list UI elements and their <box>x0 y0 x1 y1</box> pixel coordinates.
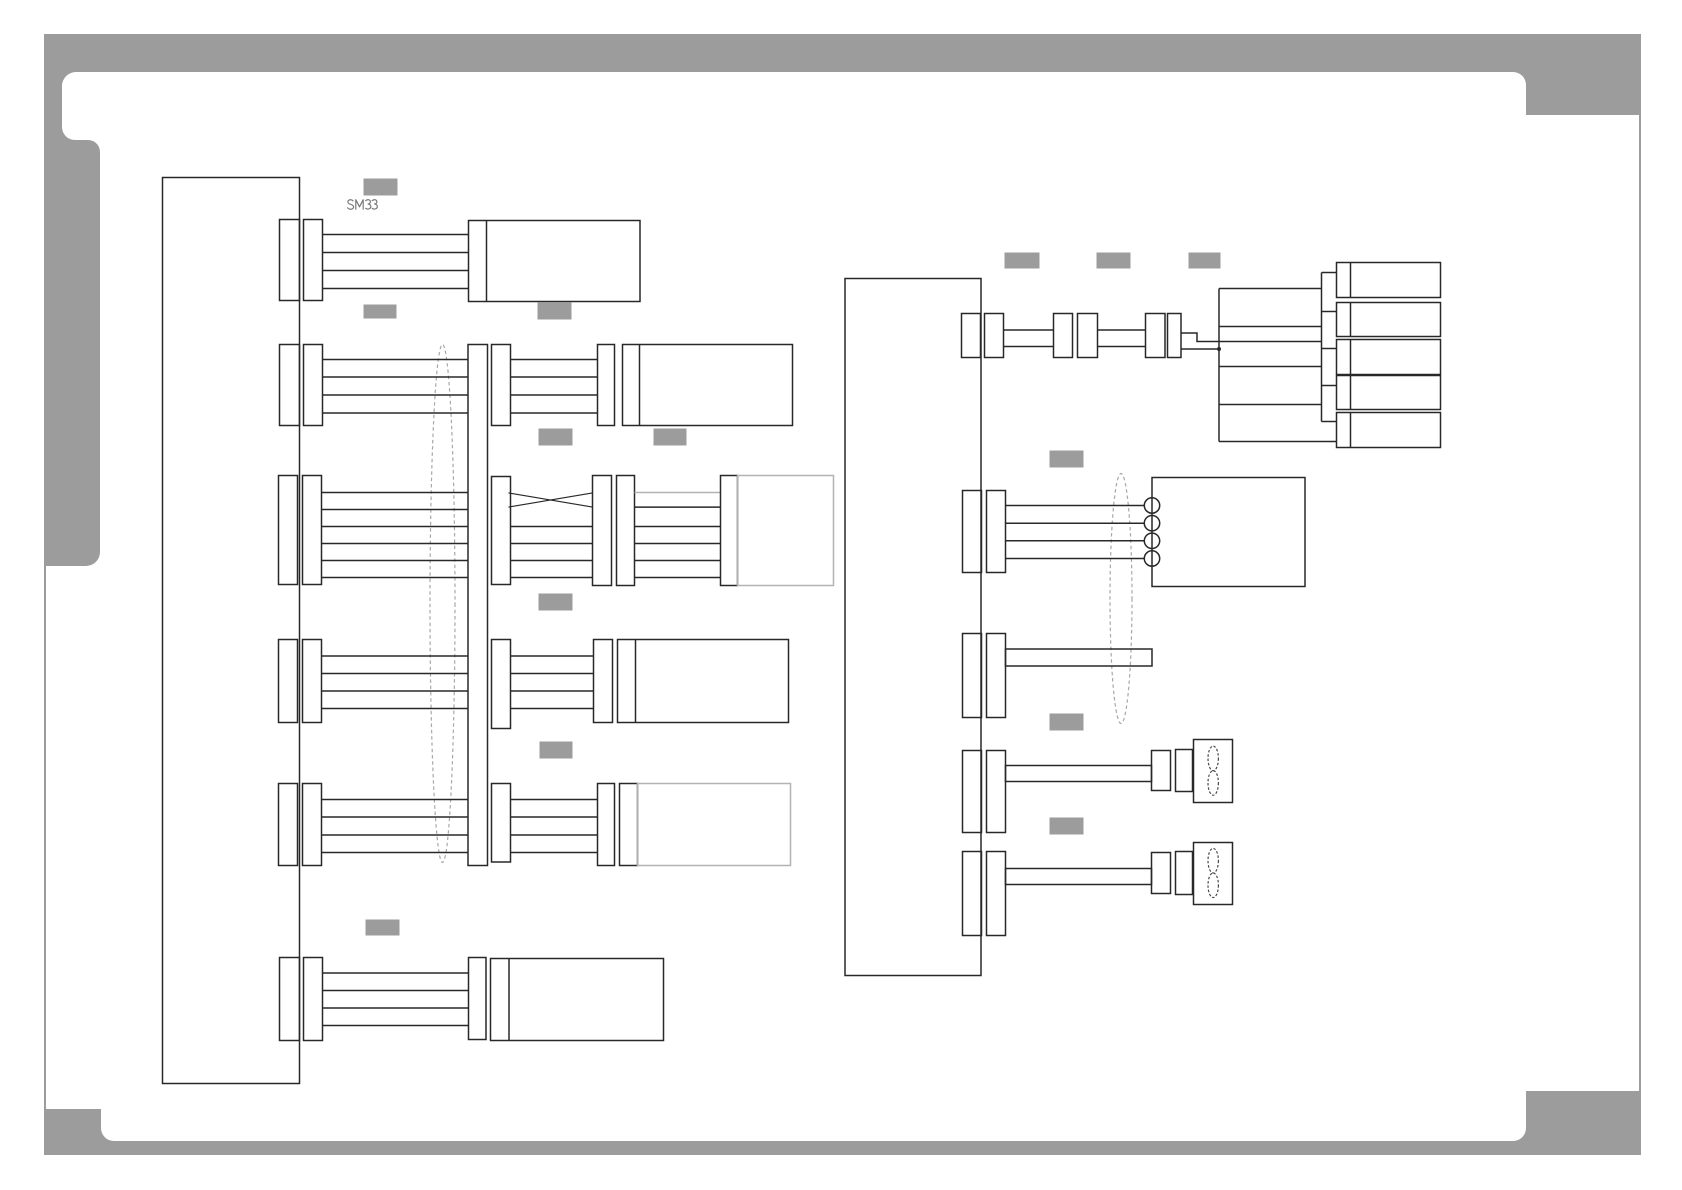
connector row B4 b <box>1176 750 1193 792</box>
wires row2 right <box>511 359 598 361</box>
connector CN21a (board side) <box>963 634 982 718</box>
wires row1 <box>323 234 469 236</box>
label row2 wires <box>539 429 573 446</box>
wires row3 (to bus) <box>322 492 469 494</box>
label row3 <box>539 594 573 611</box>
rung y326 <box>1219 326 1322 328</box>
rung y288 <box>1219 288 1322 290</box>
label row6 <box>366 920 400 936</box>
connector strip row3 box <box>721 476 738 586</box>
connector row2 right <box>598 345 615 426</box>
module box row B2 <box>1152 478 1305 587</box>
wires row3 right <box>511 526 593 528</box>
label row B3 <box>1050 714 1084 731</box>
wires row5 right <box>511 799 598 801</box>
wires row6 <box>323 972 469 974</box>
rung y404 <box>1219 404 1322 406</box>
connector CN6b (row6) <box>304 958 323 1041</box>
module box row1 with connector strip <box>469 221 641 302</box>
flat cable row B4 <box>1006 766 1152 782</box>
main board P1 (left) <box>163 178 300 1084</box>
speaker box 2 <box>1337 303 1441 337</box>
wires row B2 <box>1006 505 1145 507</box>
label chain 1 <box>1005 253 1040 269</box>
text SM33 (vector) <box>348 200 378 210</box>
wires row3 to box <box>635 506 721 508</box>
bus connector row5 <box>492 784 511 863</box>
connector CN3b (row3) <box>303 476 322 585</box>
connector CN4a (row4, board side) <box>279 640 298 723</box>
connector CN5a (row5, board side) <box>279 784 298 866</box>
label chain 3 <box>1189 253 1221 269</box>
label row B4 <box>1050 818 1084 835</box>
wire row3 to box (light) <box>635 492 721 494</box>
connector CN11b <box>1078 314 1098 358</box>
connector CN3a (row3, board side) <box>279 476 298 585</box>
cable loop ellipse (left harness) <box>430 345 455 863</box>
module box row4 with connector strip <box>618 640 789 723</box>
flat cable row B3 <box>1006 649 1153 666</box>
crossed wire row3 a <box>509 493 593 507</box>
connector strip row5 box <box>620 784 638 866</box>
wire jog upper <box>1181 333 1322 342</box>
label row B2 <box>1050 451 1084 468</box>
connector CN22b <box>987 751 1006 833</box>
wires row2 (to bus) <box>323 359 469 361</box>
speaker box 5 <box>1337 413 1441 448</box>
rung y441 to speaker 5 <box>1219 441 1337 443</box>
wires row4 (to bus) <box>322 655 469 657</box>
label row2 box <box>654 429 687 446</box>
connector CN2a (row2, board side) <box>280 345 300 426</box>
speaker box 1 <box>1337 263 1441 298</box>
module box row3 (light outline) <box>738 476 834 586</box>
main board P2 (right) <box>845 279 981 976</box>
connector row3 right a <box>593 476 612 586</box>
bus connector row2 <box>492 345 511 426</box>
cable loop ellipse (right harness) <box>1110 474 1132 724</box>
connector row5 right <box>598 784 615 866</box>
junction dot <box>1217 347 1221 351</box>
connector CN20b <box>987 491 1006 573</box>
connector CN21b <box>987 634 1006 718</box>
stub to speaker 2 <box>1322 311 1337 313</box>
junction bus B (vertical) <box>1321 273 1323 422</box>
connector CN1b (row1) <box>304 220 323 301</box>
bus connector row3 <box>492 477 511 585</box>
connector CN22a (board side) <box>963 751 982 833</box>
label row4 <box>540 742 573 759</box>
connector CN12b <box>1168 314 1182 358</box>
module box row2 with connector strip <box>623 345 793 426</box>
connector CN4b (row4) <box>303 640 322 723</box>
rung y366 <box>1219 366 1322 368</box>
connector CN20a (board side) <box>963 491 982 573</box>
connector CN6a (row6, board side) <box>280 958 300 1041</box>
connector row B4 a <box>1152 751 1171 791</box>
module box row6 with connector strip <box>491 959 664 1041</box>
connector row B5 b <box>1176 852 1193 895</box>
wires chain 1 <box>1004 329 1054 331</box>
bus connector row4 <box>492 640 511 729</box>
fan motor box row B4 <box>1194 740 1233 803</box>
stub to speaker 4 <box>1322 385 1337 387</box>
pin circles row B2 <box>1144 498 1159 513</box>
label chain 2 <box>1097 253 1131 269</box>
connector CN2b (row2) <box>304 345 323 426</box>
label row1 box <box>538 303 572 320</box>
connector row4 right <box>594 640 613 723</box>
wires chain 2 <box>1098 329 1146 331</box>
speaker box 3 <box>1337 340 1441 375</box>
wires row4 right <box>511 655 594 657</box>
connector row3 right b <box>617 476 635 586</box>
flat cable row B5 <box>1006 869 1152 885</box>
connector CN12a <box>1146 314 1166 358</box>
stub to speaker 5 <box>1322 421 1337 423</box>
crossed wire row3 b <box>509 493 593 507</box>
connector CN10b <box>985 314 1004 358</box>
label above SM33 <box>364 179 398 196</box>
connector CN23a (board side) <box>963 852 982 936</box>
stub to speaker 3 <box>1322 348 1337 350</box>
speaker box 4 <box>1337 376 1441 410</box>
wire jog lower <box>1181 348 1219 350</box>
connector CN23b <box>987 852 1006 936</box>
connector CN5b (row5) <box>303 784 322 866</box>
connector row B5 a <box>1152 853 1171 894</box>
connector CN10a (board side) <box>962 314 981 358</box>
connector CN11a <box>1054 314 1073 358</box>
stub to speaker 1 <box>1322 272 1337 274</box>
wires row5 (to bus) <box>322 799 469 801</box>
module box row5 (light outline) <box>638 784 791 866</box>
harness bus connector (tall) <box>468 345 488 866</box>
connector CN1a (row1, board side) <box>280 220 300 301</box>
label row1 connector <box>364 305 397 319</box>
junction bus A (vertical) <box>1218 289 1220 442</box>
fan motor box row B5 <box>1194 843 1233 905</box>
connector row6 right <box>469 958 487 1040</box>
